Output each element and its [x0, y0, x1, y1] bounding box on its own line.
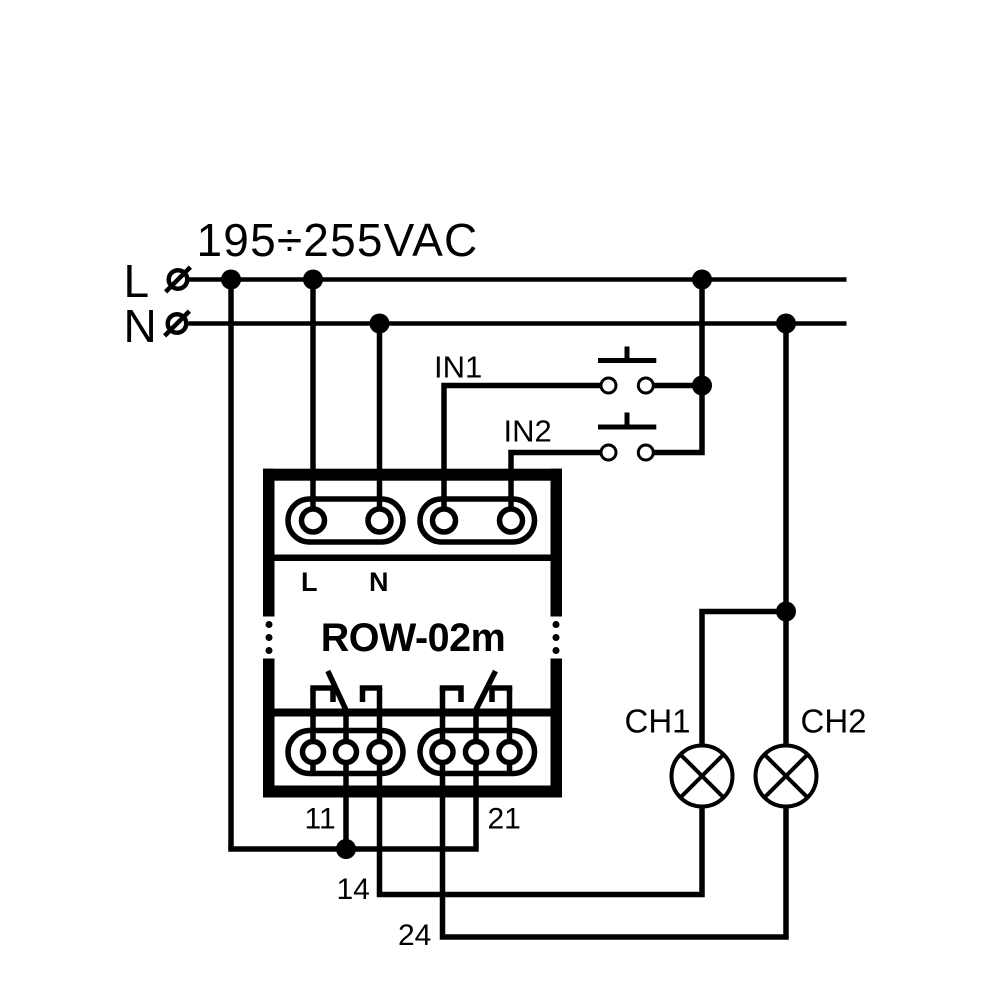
terminal group capsule 12-11-14	[288, 731, 403, 774]
terminal N open circle with slash	[165, 311, 190, 336]
wire relay common 11 down to bottom bus junction	[343, 710, 349, 850]
wire stub terminal 22 (right relay NC)	[507, 688, 513, 774]
lamp CH1	[672, 746, 733, 807]
wire from L junction down to terminal L of device	[310, 280, 316, 521]
device box border left upper	[263, 469, 275, 617]
terminal 22 screw	[499, 742, 520, 763]
terminal IN1 screw	[433, 509, 456, 532]
wire from IN2 terminal up and right to IN2 switch left contact	[511, 453, 609, 521]
device box left side dots	[266, 621, 273, 654]
relay K1 fixed contact bracket (NC side, terminal 12)	[310, 688, 333, 702]
wire from IN1 terminal up and right to IN1 switch left contact	[444, 386, 609, 521]
device box border left lower	[263, 659, 275, 798]
junction on N bus at lamps drop	[776, 314, 796, 334]
terminal group capsule 24-21-22	[420, 731, 535, 774]
junction on L bus at terminal L drop	[303, 270, 323, 290]
terminal 11 screw	[336, 742, 357, 763]
terminal N screw	[368, 509, 391, 532]
pushbutton IN2 left contact	[601, 445, 616, 460]
wire L bus	[189, 277, 847, 282]
relay K1 fixed contact bracket (NO side, terminal 14)	[363, 688, 383, 702]
device box divider under input terminals	[275, 555, 551, 562]
device box border top	[263, 469, 562, 481]
svg-text:CH2: CH2	[801, 703, 867, 740]
terminal IN2 screw	[500, 509, 523, 532]
terminal 24 screw	[432, 742, 453, 763]
relay K2 movable contact arm (common 21)	[476, 671, 496, 710]
wire branch from node to lamp CH1	[702, 612, 786, 744]
svg-text:IN2: IN2	[504, 414, 552, 449]
wire from L junction down left side to bottom bus	[228, 280, 234, 850]
svg-text:N: N	[124, 300, 157, 352]
relay K2 fixed contact bracket (NC side, terminal 22)	[492, 688, 512, 702]
wire stub terminal 12 (left relay NC)	[310, 688, 316, 774]
terminal group capsule L-N	[288, 499, 403, 542]
wire from L bus down through IN1 node to IN2 switch right contact	[646, 280, 702, 453]
wire 14 from lamp CH1 bottom to relay contact 14	[380, 688, 703, 895]
wire from IN1 switch right contact to node	[646, 383, 702, 389]
wire from N bus down to lamp CH2, through branch node	[783, 324, 789, 744]
junction on L bus at switches drop	[692, 270, 712, 290]
junction on N bus at terminal N drop	[370, 314, 390, 334]
lamp CH2	[756, 746, 817, 807]
pushbutton IN2 right contact	[638, 445, 653, 460]
device box border bottom	[263, 786, 562, 798]
svg-text:21: 21	[488, 803, 521, 836]
wire N bus	[189, 321, 847, 326]
wire bottom bus from left side to relay common 21	[228, 710, 476, 850]
terminal 12 screw	[303, 742, 324, 763]
device box divider above output terminals	[275, 709, 551, 717]
pushbutton IN2 actuator	[598, 413, 656, 428]
junction node lamp branch	[776, 602, 796, 622]
wire from N junction down to terminal N of device	[377, 324, 383, 521]
terminal L open circle with slash	[166, 267, 191, 292]
terminal 21 screw	[466, 742, 487, 763]
pushbutton IN1 actuator	[598, 347, 656, 361]
svg-text:N: N	[369, 567, 389, 597]
junction node IN1 switch to L	[692, 376, 712, 396]
wire 24 from lamp CH2 bottom to relay contact 24	[443, 688, 787, 937]
junction on L bus at left drop	[221, 270, 241, 290]
svg-text:IN1: IN1	[434, 350, 482, 385]
terminal 14 screw	[369, 742, 390, 763]
svg-text:L: L	[301, 567, 318, 597]
svg-text:14: 14	[337, 873, 370, 906]
svg-text:CH1: CH1	[625, 703, 691, 740]
terminal group capsule IN1-IN2	[420, 499, 535, 542]
junction node bottom bus to relay common 11	[336, 839, 356, 859]
device box border right upper	[551, 469, 563, 617]
svg-text:195÷255VAC: 195÷255VAC	[197, 214, 479, 266]
pushbutton IN1 left contact	[601, 378, 616, 393]
device box border right lower	[551, 659, 563, 798]
device box right side dots	[553, 621, 560, 654]
svg-text:ROW-02m: ROW-02m	[321, 616, 505, 660]
relay K2 fixed contact bracket (NO side, terminal 24)	[440, 688, 461, 702]
pushbutton IN1 right contact	[638, 378, 653, 393]
terminal L screw	[302, 509, 325, 532]
svg-text:11: 11	[305, 803, 336, 836]
svg-text:24: 24	[398, 919, 431, 952]
relay K1 movable contact arm (common 11)	[328, 671, 346, 710]
